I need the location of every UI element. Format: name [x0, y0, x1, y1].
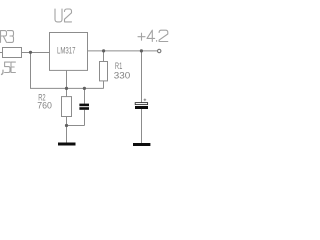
svg-text:LM317: LM317 — [57, 46, 76, 57]
svg-text:760: 760 — [37, 100, 52, 111]
svg-text:330: 330 — [114, 71, 131, 82]
